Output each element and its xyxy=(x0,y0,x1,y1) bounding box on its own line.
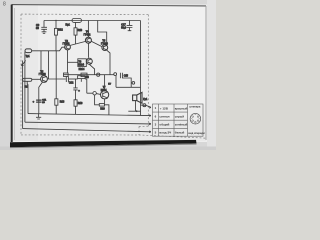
wire T3 collector xyxy=(70,41,85,45)
svg-text:R16: R16 xyxy=(78,29,83,32)
svg-text:Тр1: Тр1 xyxy=(26,55,31,58)
svg-text:П214: П214 xyxy=(79,68,85,71)
junction dot xyxy=(136,110,138,112)
input transformer Tr1 xyxy=(25,49,32,53)
svg-text:зелёный: зелёный xyxy=(175,123,188,127)
wire T7 collector up xyxy=(104,75,106,91)
wire output low xyxy=(116,75,141,87)
wire Tr1 to T3 base xyxy=(32,47,65,51)
wire +V top bus xyxy=(44,20,141,22)
svg-text:П214: П214 xyxy=(78,64,84,67)
mid wire xyxy=(64,74,114,76)
wire row3 xyxy=(25,122,150,124)
svg-text:С15: С15 xyxy=(124,76,129,78)
svg-text:белый: белый xyxy=(175,131,185,135)
resistor R19 xyxy=(74,100,77,106)
trim resistor R5 xyxy=(78,76,85,79)
resistor R20 emitter xyxy=(104,99,106,104)
resistor R16 xyxy=(75,23,77,28)
capacitor C13 elco xyxy=(73,79,77,100)
terminal ring KT2 xyxy=(114,73,117,76)
svg-text:ГТ108: ГТ108 xyxy=(63,43,70,46)
svg-text:сигнал: сигнал xyxy=(159,114,169,118)
wire T1 emitter down to bus xyxy=(39,82,43,114)
thick bottom scan bar xyxy=(10,140,197,147)
svg-text:вид спереди: вид спереди xyxy=(188,132,205,135)
connection table xyxy=(153,104,204,136)
svg-text:красный: красный xyxy=(175,106,188,110)
capacitor C17 xyxy=(127,21,133,31)
DIN connector face xyxy=(190,113,201,124)
svg-text:8: 8 xyxy=(3,2,6,8)
svg-text:+ 12В: + 12В xyxy=(160,106,169,110)
arrow row1 xyxy=(149,107,151,109)
svg-text:R19: R19 xyxy=(78,102,83,105)
wire pot to T1 xyxy=(32,78,41,80)
dashed unit boundary xyxy=(21,14,207,138)
arrow row2 xyxy=(149,115,151,117)
svg-text:R20: R20 xyxy=(100,108,105,110)
wire T4 to T5 xyxy=(91,41,102,47)
wire bias drop a xyxy=(41,51,44,71)
outer border frame xyxy=(12,5,207,142)
wire T4 emitter down xyxy=(87,43,89,58)
svg-text:ГТ402: ГТ402 xyxy=(84,34,91,37)
wire T3 to box xyxy=(68,61,78,63)
terminal ring KT3 xyxy=(130,82,133,84)
svg-text:50,0: 50,0 xyxy=(121,26,126,29)
wire R5 to T7 base xyxy=(85,79,93,93)
ground bus bottom xyxy=(28,114,150,116)
capacitor C12 xyxy=(66,76,68,82)
wire input column row3 xyxy=(24,52,26,123)
boxed label T6 xyxy=(78,59,87,67)
svg-text:С12: С12 xyxy=(69,82,74,85)
wire T5 collector xyxy=(98,21,107,46)
resistor R13 xyxy=(55,51,57,99)
resistor R18 on mid wire xyxy=(81,73,87,77)
scan shading xyxy=(12,5,38,141)
arrow row4 xyxy=(149,131,151,133)
terminal ring base xyxy=(93,92,96,95)
volume pot R1 xyxy=(23,78,32,81)
wire T1 collector coupling xyxy=(48,78,66,80)
svg-text:серый: серый xyxy=(175,114,184,118)
svg-text:ГТ108: ГТ108 xyxy=(39,73,46,76)
transistor T6 xyxy=(86,58,92,64)
capacitor C9 filter to ground xyxy=(41,21,47,32)
capacitor C15 xyxy=(120,73,122,79)
wiper arrow xyxy=(22,60,26,66)
svg-text:штекера: штекера xyxy=(189,106,201,109)
fuse Pr1 on bus xyxy=(72,19,82,23)
wire speaker to bus xyxy=(128,110,140,112)
transistor T3 xyxy=(65,44,71,50)
ground symbol xyxy=(36,114,41,119)
transistor T4 xyxy=(87,21,89,38)
capacitor C11 elco xyxy=(36,100,42,102)
transistor T5 xyxy=(102,45,108,51)
transistor T1 xyxy=(41,76,48,83)
transistor T7 xyxy=(101,91,109,99)
wire right drop xyxy=(140,21,142,116)
terminal ring KT1 xyxy=(97,73,100,76)
svg-text:общий: общий xyxy=(159,123,169,127)
svg-text:Пр1: Пр1 xyxy=(66,24,71,27)
arrow row3 xyxy=(149,123,151,125)
main schematic ink xyxy=(22,19,151,133)
wire T3 emitter down xyxy=(67,50,69,73)
resistor R12 xyxy=(55,20,56,21)
svg-text:П214: П214 xyxy=(101,89,107,92)
svg-text:R12: R12 xyxy=(58,29,63,32)
paper background xyxy=(0,0,216,150)
svg-text:Гр1: Гр1 xyxy=(143,97,148,101)
wire bias drop b xyxy=(48,51,50,79)
svg-text:R13: R13 xyxy=(60,100,65,103)
wire T6 emitter xyxy=(89,64,94,74)
wire T5 emitter down xyxy=(107,50,110,75)
svg-text:ГТ404: ГТ404 xyxy=(101,42,108,45)
svg-text:вход ЗЧ: вход ЗЧ xyxy=(159,131,171,135)
wire to table row1 xyxy=(141,105,151,107)
terminal ring output xyxy=(143,104,146,107)
ground under C9 xyxy=(42,32,47,34)
speaker Gr1 xyxy=(133,95,137,101)
wire pot ground drop xyxy=(27,84,29,113)
resistor R15 on mid wire xyxy=(64,73,69,77)
wire row4 xyxy=(23,129,151,132)
wire input column row4 xyxy=(22,61,24,129)
